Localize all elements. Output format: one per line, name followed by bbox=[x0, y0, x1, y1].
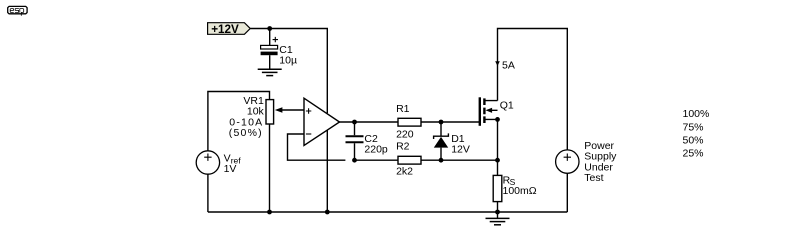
transistor Q1 (N-channel MOSFET) bbox=[480, 97, 514, 126]
wire lower row (C2 to R2) bbox=[355, 159, 399, 161]
svg-text:R2: R2 bbox=[396, 140, 410, 152]
+12V supply tag bbox=[208, 23, 251, 35]
wire Q1 drain to top rail bbox=[498, 29, 568, 150]
svg-text:5A: 5A bbox=[502, 60, 515, 72]
svg-text:+12V: +12V bbox=[211, 23, 239, 36]
svg-text:(50%): (50%) bbox=[229, 127, 263, 139]
5A current arrow bbox=[495, 61, 500, 66]
ground (C1) bbox=[258, 69, 282, 75]
node Rs top junction bbox=[495, 158, 500, 163]
node D1 top junction bbox=[439, 120, 444, 125]
svg-text:2k2: 2k2 bbox=[396, 166, 413, 178]
node C2 top junction bbox=[352, 120, 357, 125]
svg-text:220: 220 bbox=[396, 128, 414, 140]
resistor Rs bbox=[493, 174, 537, 212]
svg-text:Test: Test bbox=[584, 172, 603, 184]
svg-text:100%: 100% bbox=[683, 108, 710, 120]
svg-text:10µ: 10µ bbox=[279, 54, 297, 66]
wire Vref/VR1 top loop bbox=[208, 92, 270, 151]
node VR1 bottom junction bbox=[267, 210, 272, 215]
wire +12V rail bbox=[250, 29, 327, 114]
svg-text:R1: R1 bbox=[396, 103, 410, 115]
esp logo bbox=[8, 6, 27, 15]
resistor R2 bbox=[396, 140, 421, 177]
source Power Supply Under Test bbox=[556, 140, 618, 212]
zener diode D1 bbox=[434, 122, 470, 160]
svg-text:75%: 75% bbox=[683, 121, 704, 133]
svg-text:100mΩ: 100mΩ bbox=[503, 185, 537, 197]
potentiometer VR1 bbox=[229, 95, 304, 212]
wiper arrow bbox=[282, 109, 304, 111]
resistor R1 bbox=[396, 103, 421, 140]
node D1 bottom junction bbox=[439, 158, 444, 163]
wire opamp output row bbox=[340, 121, 399, 123]
node C1 top junction bbox=[267, 26, 272, 31]
op-amp U1 bbox=[304, 98, 340, 145]
load percentage legend bbox=[683, 108, 710, 159]
svg-text:220p: 220p bbox=[364, 144, 388, 156]
node Rs bottom / ground junction bbox=[495, 210, 500, 215]
node C2 bottom junction bbox=[352, 158, 357, 163]
wire R1 to gate bbox=[421, 121, 479, 123]
source Vref bbox=[196, 151, 241, 212]
svg-text:Q1: Q1 bbox=[500, 100, 514, 112]
wire opamp V- to ground rail bbox=[326, 130, 328, 212]
wire feedback loop bbox=[288, 134, 346, 160]
node opamp ground junction bbox=[325, 210, 330, 215]
svg-text:12V: 12V bbox=[451, 143, 470, 155]
svg-text:25%: 25% bbox=[683, 148, 704, 160]
capacitor C1 bbox=[261, 29, 297, 70]
capacitor C2 bbox=[346, 122, 388, 160]
ground (main) bbox=[486, 212, 510, 225]
svg-text:50%: 50% bbox=[683, 134, 704, 146]
svg-text:1V: 1V bbox=[224, 163, 237, 175]
wire Q1 source down to Rs bbox=[497, 119, 499, 175]
wire R2 to Q1 source node bbox=[421, 159, 498, 161]
wire bottom ground rail bbox=[208, 211, 567, 213]
node Q1 source junction bbox=[495, 117, 500, 122]
